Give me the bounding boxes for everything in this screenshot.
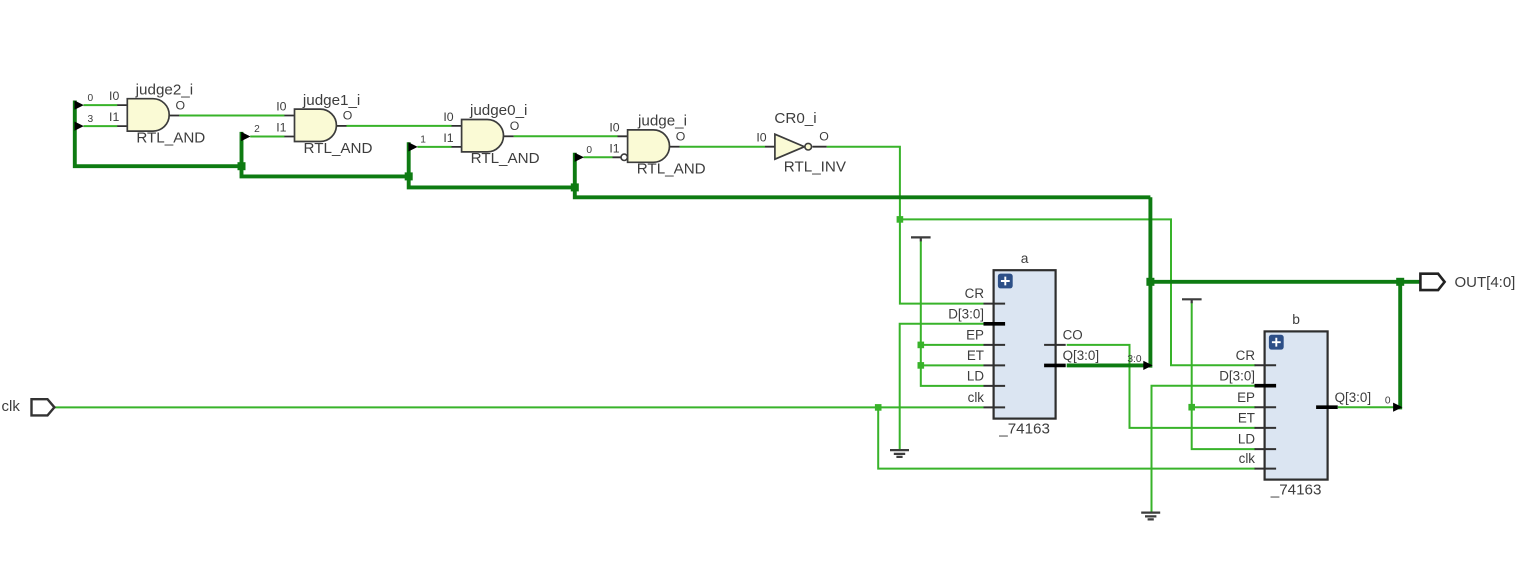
svg-text:I0: I0 — [109, 89, 119, 103]
wire net const0 b.D[3:0] to ground — [1152, 386, 1256, 513]
power constant T-bar at block a — [911, 237, 931, 241]
bus tap arrow OUT[0] into judge_i.I1 — [575, 153, 584, 162]
wire net const1 branch to a.ET — [921, 364, 984, 366]
svg-text:judge0_i: judge0_i — [469, 102, 527, 119]
junction net at (899.9,219.4) — [897, 216, 904, 223]
wire net const0 a.D[3:0] to ground — [900, 324, 984, 450]
bus tap arrow a.Q[3:0] into OUT bus — [1143, 361, 1152, 370]
wire net judge1_i.O to judge0_i.I0 — [347, 125, 452, 127]
junction bus at (1150.4,281.8) — [1146, 278, 1154, 286]
svg-text:clk: clk — [1239, 451, 1256, 466]
wire net OUT[3] tap to judge2_i.I1 — [84, 125, 118, 127]
svg-text:3:0: 3:0 — [1127, 354, 1141, 365]
bus tap arrow OUT[1] into judge0_i.I1 — [408, 142, 417, 151]
svg-text:judge2_i: judge2_i — [135, 81, 193, 98]
svg-text:EP: EP — [1237, 390, 1255, 405]
AND gate judge2_i (RTL_AND) — [117, 99, 179, 131]
counter block b (_74163 Ub) — [1255, 331, 1338, 479]
bus tap arrow OUT[3] into judge2_i.I1 — [75, 122, 84, 131]
wire bus OUT[4:0] tap chain at gate judge_i — [575, 153, 1151, 198]
svg-text:O: O — [510, 119, 520, 133]
wire net clk branch down to b.clk — [878, 407, 1255, 468]
svg-text:I0: I0 — [276, 100, 286, 114]
svg-text:RTL_INV: RTL_INV — [784, 158, 847, 175]
svg-text:CR: CR — [965, 286, 985, 301]
svg-text:b: b — [1292, 312, 1300, 327]
junction net at (1191.7,407.2) — [1188, 404, 1195, 411]
junction bus at (574.8,187.4) — [571, 183, 579, 191]
svg-text:0: 0 — [1385, 395, 1391, 406]
ground symbol at block b D input — [1141, 513, 1160, 520]
junction net at (878.2,407.4) — [875, 404, 882, 411]
wire net judge0_i.O to judge_i.I0 — [514, 135, 618, 137]
svg-text:Q[3:0]: Q[3:0] — [1063, 348, 1099, 363]
svg-text:O: O — [819, 130, 829, 144]
power constant T-bar at block b — [1182, 299, 1202, 303]
AND gate judge_i (RTL_AND) — [613, 130, 680, 162]
junction bus at (408.7,176.4) — [405, 172, 413, 180]
AND gate judge1_i (RTL_AND) — [284, 109, 346, 141]
input port clk — [32, 399, 55, 415]
wire net b.Q[3:0] bit 0 to OUT tap — [1338, 406, 1394, 408]
wire net OUT[2] tap to judge1_i.I1 — [250, 136, 284, 138]
wire bus OUT[4:0] horizontal to output port — [1150, 280, 1420, 284]
wire net const1 from T-bar a to a.LD — [921, 241, 984, 386]
svg-text:RTL_AND: RTL_AND — [136, 129, 205, 146]
wire net const1 branch to a.EP — [921, 344, 984, 346]
svg-text:EP: EP — [966, 328, 984, 343]
svg-text:ET: ET — [967, 348, 984, 363]
svg-text:_74163: _74163 — [1270, 481, 1322, 498]
wire net judge_i.O to CR0_i.I0 — [680, 146, 765, 148]
svg-text:RTL_AND: RTL_AND — [304, 140, 373, 157]
wire net judge2_i.O to judge1_i.I0 — [179, 115, 284, 117]
svg-text:CR0_i: CR0_i — [774, 110, 816, 127]
svg-text:0: 0 — [586, 145, 592, 156]
svg-text:LD: LD — [1238, 432, 1255, 447]
wire bus OUT[4:0] branch down to b Q tap — [1398, 282, 1402, 410]
wire bus OUT[4:0] tap chain at gate judge2_i — [75, 101, 242, 167]
wire bus OUT[4:0] tap chain at gate judge0_i — [409, 142, 575, 187]
svg-text:CO: CO — [1063, 328, 1083, 343]
svg-text:Q[3:0]: Q[3:0] — [1335, 390, 1371, 405]
svg-text:O: O — [676, 130, 686, 144]
svg-text:judge_i: judge_i — [637, 113, 687, 130]
svg-text:CR: CR — [1236, 348, 1256, 363]
svg-text:I1: I1 — [609, 141, 619, 155]
bus tap arrow b.Q[0] into OUT bus — [1393, 403, 1402, 412]
output port OUT[4:0] — [1420, 274, 1444, 290]
svg-text:a: a — [1021, 251, 1029, 266]
svg-text:I1: I1 — [443, 131, 453, 145]
wire net const1 branch to b.EP — [1192, 406, 1256, 408]
ground symbol at block a D input — [890, 450, 909, 457]
svg-text:I1: I1 — [276, 121, 286, 135]
AND gate judge0_i (RTL_AND) — [452, 120, 514, 152]
svg-text:2: 2 — [254, 124, 260, 135]
svg-text:D[3:0]: D[3:0] — [1219, 368, 1255, 383]
svg-text:RTL_AND: RTL_AND — [637, 161, 706, 178]
bus tap arrow OUT[2] into judge1_i.I1 — [241, 132, 250, 141]
junction net at (920.8,344.9) — [918, 342, 925, 349]
svg-text:I1: I1 — [109, 110, 119, 124]
junction bus at (241.5,166.2) — [238, 162, 246, 170]
svg-text:clk: clk — [968, 390, 985, 405]
wire bus OUT[4:0] tap chain at gate judge1_i — [242, 132, 409, 177]
wire net CR0 from inverter output — [827, 147, 900, 220]
junction net at (920.8,365.4) — [918, 362, 925, 369]
svg-text:OUT[4:0]: OUT[4:0] — [1455, 274, 1516, 291]
svg-text:1: 1 — [420, 135, 426, 146]
counter block a (_74163 Ua) — [984, 270, 1066, 418]
svg-text:O: O — [176, 98, 186, 112]
wire bus OUT[4:0] vertical trunk — [1148, 197, 1152, 367]
wire net CR0 branch to a.CR — [900, 219, 984, 303]
svg-text:0: 0 — [87, 93, 93, 104]
svg-text:I0: I0 — [756, 131, 766, 145]
svg-text:_74163: _74163 — [998, 420, 1050, 437]
wire bus a.Q[3:0] to OUT trunk — [1067, 363, 1144, 367]
svg-text:ET: ET — [1238, 411, 1255, 426]
wire net CR0 branch to b.CR — [900, 219, 1256, 365]
bus tap arrow OUT[0] into judge2_i.I0 — [75, 101, 84, 110]
wire net a.CO carry to b.ET — [1067, 345, 1256, 428]
junction bus at (1400.2,281.8) — [1396, 278, 1404, 286]
wire net OUT[1] tap to judge0_i.I1 — [417, 146, 451, 148]
svg-text:I0: I0 — [609, 120, 619, 134]
inverter CR0_i (RTL_INV) — [765, 134, 827, 159]
svg-text:RTL_AND: RTL_AND — [471, 150, 540, 167]
svg-text:D[3:0]: D[3:0] — [948, 306, 984, 321]
svg-text:judge1_i: judge1_i — [302, 92, 360, 109]
wire net clk from port to a.clk — [54, 406, 983, 408]
wire net OUT[0] tap to judge2_i.I0 — [84, 104, 118, 106]
wire net const1 from T-bar b to b.LD — [1192, 303, 1256, 450]
svg-text:clk: clk — [2, 398, 21, 415]
svg-text:O: O — [343, 109, 353, 123]
svg-text:LD: LD — [967, 369, 984, 384]
svg-text:3: 3 — [87, 114, 93, 125]
svg-text:I0: I0 — [443, 110, 453, 124]
wire net OUT[0] tap to judge_i.I1 — [584, 156, 613, 158]
